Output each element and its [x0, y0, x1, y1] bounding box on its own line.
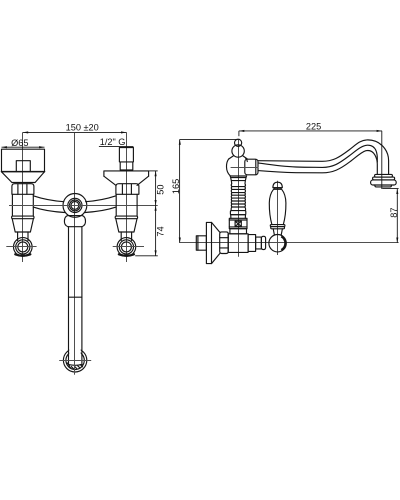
arrow down 87 — [396, 238, 398, 243]
right hex nut — [116, 184, 139, 195]
hub horizontal center line — [9, 205, 158, 207]
arrow right 225 — [377, 130, 382, 132]
LEFT VIEW (front) — [2, 122, 166, 374]
spout collar — [245, 159, 258, 175]
left body arm bottom edge — [33, 207, 64, 212]
column band — [230, 211, 245, 215]
left inlet nut circle — [13, 238, 32, 257]
dim 225 right extension through spout outlet — [381, 131, 383, 189]
right flange slopes — [104, 176, 149, 185]
handle ball joint — [269, 235, 286, 252]
spout collar inner line — [255, 160, 257, 175]
left inlet collar ring — [12, 216, 34, 219]
spout middle line — [258, 145, 377, 167]
column skirt — [230, 176, 246, 184]
left body arm top edge — [33, 196, 64, 202]
shaft ring — [261, 236, 265, 249]
left inlet taper — [12, 219, 33, 232]
hub horizontal center line — [231, 167, 259, 169]
column axis center line — [238, 139, 240, 256]
right hex nut facets — [122, 184, 131, 194]
wall flange cone — [212, 222, 220, 263]
right connector thread pipe — [119, 148, 133, 162]
column bellows left edge — [230, 184, 233, 211]
spout bottom line — [258, 150, 377, 174]
right body arm top edge — [86, 196, 116, 202]
pipe outlet outer circle — [63, 349, 86, 372]
right connector body — [116, 194, 137, 216]
RIGHT VIEW (side) — [171, 122, 399, 264]
shaft to handle — [256, 237, 262, 249]
arrow left of O65 dim — [2, 146, 7, 148]
arrow right of O65 dim — [39, 146, 44, 148]
outlet bell — [371, 180, 397, 185]
left hex nut — [12, 184, 34, 195]
dim 87 vertical line — [396, 189, 398, 243]
pipe outlet inner circle — [66, 351, 84, 369]
valve main body — [228, 234, 248, 253]
central hub inner rings — [68, 198, 82, 212]
svg-text:225: 225 — [306, 122, 321, 132]
pipe end line — [69, 364, 82, 367]
center line central spout axis — [74, 133, 76, 375]
handle top knob — [273, 182, 282, 188]
left inlet crosshair — [6, 246, 36, 248]
dim 225 left tick — [238, 131, 240, 136]
arrow up at 170.9 — [155, 171, 157, 176]
svg-text:150 ±20: 150 ±20 — [66, 122, 99, 132]
right flange top — [104, 171, 149, 176]
right inlet washer — [119, 254, 134, 255]
dimension 150 +-20 line — [23, 131, 127, 133]
handle ball cap crescent — [281, 236, 285, 250]
left flange skirt — [2, 172, 45, 183]
wall thread cap line — [197, 236, 199, 250]
arrow down at 255.8 — [155, 250, 157, 255]
pipe outlet hatching — [67, 363, 83, 369]
svg-text:Ø65: Ø65 — [11, 138, 28, 148]
hub body side view — [226, 158, 247, 176]
band below block — [230, 229, 247, 234]
dim 165 vertical line — [179, 139, 181, 243]
column bellows right edge — [244, 184, 247, 211]
left flange cap — [16, 161, 30, 172]
dim 225 line — [239, 130, 382, 132]
left wall flange (O65 escutcheon) — [2, 149, 45, 171]
spout top line — [258, 140, 389, 175]
wall thread pipe — [196, 236, 206, 250]
right collar of valve — [248, 235, 256, 252]
arrow left of 150 dim — [23, 131, 28, 133]
center line left connector axis — [22, 132, 24, 262]
down pipe — [69, 227, 82, 365]
side hex nut facets — [220, 238, 229, 248]
outlet lip — [375, 185, 392, 187]
column bellows ring lines — [232, 187, 245, 207]
dim 74 bottom extension — [135, 255, 158, 257]
svg-text:165: 165 — [171, 179, 181, 194]
arrow down 165 — [179, 238, 181, 243]
right inlet collar ring — [115, 216, 137, 219]
dim 165 top extension — [180, 138, 239, 140]
center line right connector axis — [126, 132, 128, 262]
finial small ball — [235, 139, 242, 146]
down pipe joint line — [69, 296, 82, 298]
pipe outlet crosshair — [59, 360, 91, 362]
dim 50-74 vertical line — [155, 171, 157, 256]
left connector body — [12, 194, 33, 216]
set screw block — [229, 218, 247, 228]
set screw square — [235, 221, 241, 226]
bell below hub — [64, 216, 85, 227]
side hex nut — [220, 232, 229, 254]
right body arm bottom edge — [85, 207, 116, 212]
arrow up 165 — [179, 139, 181, 144]
arrow right of 150 dim — [121, 131, 126, 133]
dim 87 top extension — [382, 188, 398, 190]
wall flange plate — [206, 222, 211, 263]
svg-text:74: 74 — [155, 226, 165, 236]
handle collar rings — [270, 225, 285, 227]
dimension O65 line — [2, 146, 45, 148]
left inlet neck — [18, 232, 28, 241]
hub bottom line / column top — [230, 175, 247, 177]
right inlet nut circle — [117, 238, 136, 257]
left flange bottom edge — [2, 171, 45, 173]
outlet ring 1 — [375, 174, 393, 177]
handle grip — [269, 189, 286, 224]
svg-text:50: 50 — [155, 184, 165, 194]
handle axis center line — [277, 181, 279, 255]
leader line under 1/2" G — [99, 146, 133, 148]
dim 50-74 extension from flange top — [149, 170, 158, 172]
handle stem — [273, 229, 282, 235]
right inlet taper — [116, 219, 137, 232]
finial large ball — [232, 145, 244, 157]
arrow up 87 — [396, 189, 398, 194]
pipe axis lower segment — [74, 340, 76, 375]
left hex nut facets — [18, 184, 27, 194]
svg-text:1/2" G: 1/2" G — [100, 137, 126, 147]
pipe interior mask — [69, 340, 81, 365]
left inlet washer — [15, 254, 30, 255]
valve axis center line (also bottom extension of 165 and 87) — [180, 242, 399, 244]
handle neck band — [274, 188, 281, 190]
right inlet neck — [121, 232, 131, 241]
right inlet crosshair — [113, 246, 144, 248]
right connector hex front — [120, 162, 133, 170]
central hub outer circle — [63, 194, 87, 218]
outlet ring 2 — [373, 177, 395, 180]
column band 2 — [231, 215, 246, 219]
flare left — [229, 156, 233, 159]
flare right — [243, 156, 247, 159]
arrows at 205.4 — [155, 200, 157, 211]
svg-text:87: 87 — [389, 207, 399, 217]
arrow left 225 — [239, 130, 244, 132]
